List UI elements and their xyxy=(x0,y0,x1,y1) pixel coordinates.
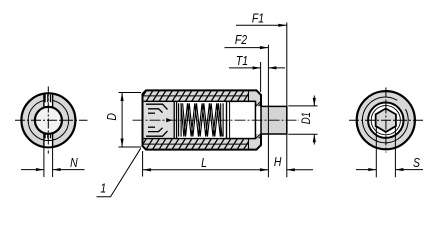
svg-text:H: H xyxy=(274,154,282,170)
svg-text:S: S xyxy=(413,155,420,171)
svg-text:F1: F1 xyxy=(252,10,264,26)
svg-text:D1: D1 xyxy=(300,112,313,124)
svg-text:1: 1 xyxy=(100,180,106,196)
svg-text:F2: F2 xyxy=(235,32,248,48)
svg-text:T1: T1 xyxy=(236,53,248,69)
svg-text:D: D xyxy=(104,113,120,121)
svg-text:N: N xyxy=(70,155,78,171)
svg-text:L: L xyxy=(201,155,207,171)
